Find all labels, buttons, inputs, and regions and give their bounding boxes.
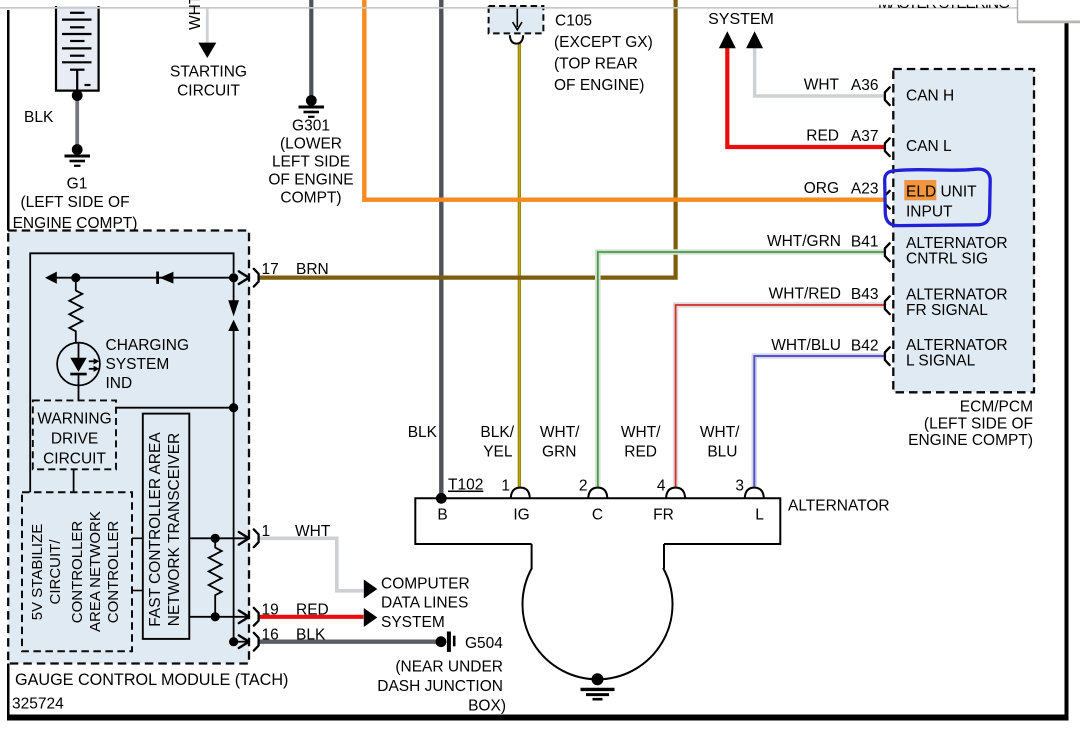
node dot pin1 row	[211, 534, 220, 543]
up arrow on right column	[228, 320, 239, 331]
svg-text:T102: T102	[448, 477, 483, 494]
svg-text:WARNING: WARNING	[37, 411, 111, 428]
svg-text:A37: A37	[851, 128, 879, 145]
svg-text:WHT/GRN: WHT/GRN	[767, 233, 841, 250]
LED charging system indicator circle	[57, 343, 100, 386]
wire BLK pin16 to G504	[260, 640, 438, 644]
wire BLK/YEL C105 to IG	[518, 44, 521, 489]
svg-text:GAUGE CONTROL MODULE (TACH): GAUGE CONTROL MODULE (TACH)	[15, 671, 288, 689]
svg-text:WHT/: WHT/	[540, 424, 580, 441]
ELD highlight	[904, 180, 936, 200]
T102 splice dot	[436, 493, 447, 504]
pin16 row line	[234, 641, 250, 643]
svg-text:YEL: YEL	[483, 444, 513, 461]
svg-text:CAN H: CAN H	[906, 88, 954, 105]
svg-text:1: 1	[262, 523, 271, 540]
svg-text:325724: 325724	[12, 696, 64, 713]
svg-text:CNTRL SIG: CNTRL SIG	[906, 251, 988, 268]
alternator connector body	[415, 498, 780, 544]
svg-text:L SIGNAL: L SIGNAL	[906, 352, 976, 369]
wire BLK T102 vertical	[439, 0, 443, 495]
svg-text:FR: FR	[653, 507, 674, 524]
svg-text:IND: IND	[106, 375, 133, 392]
svg-text:BOX): BOX)	[468, 698, 506, 715]
resistor R1	[69, 278, 82, 343]
svg-text:SYSTEM: SYSTEM	[106, 356, 170, 373]
warning drive circuit box	[33, 400, 116, 469]
svg-text:A23: A23	[851, 181, 879, 198]
svg-text:WHT: WHT	[804, 77, 840, 94]
ECM pin brackets A36 A37 A23 B41 B43 B42	[885, 87, 890, 365]
computer data lines arrow 1	[364, 580, 378, 599]
C105 arrow	[516, 8, 518, 27]
pin1 row line	[189, 537, 249, 539]
svg-text:(LOWER: (LOWER	[280, 136, 342, 153]
wire WHT CAN H	[755, 47, 885, 97]
svg-text:2: 2	[579, 478, 588, 495]
svg-text:CIRCUIT: CIRCUIT	[43, 451, 106, 468]
frame right border	[1065, 21, 1069, 717]
svg-text:G1: G1	[67, 176, 88, 193]
node dot left	[71, 273, 80, 282]
label FAST controller area network transceiver	[146, 417, 184, 642]
node dot pin16 row	[229, 637, 238, 646]
module inner circuit box	[30, 253, 233, 492]
terminal bumps IG C FR L	[511, 488, 764, 498]
svg-text:(LEFT SIDE OF: (LEFT SIDE OF	[20, 194, 129, 211]
svg-text:SYSTEM: SYSTEM	[381, 614, 445, 631]
battery terminal dot	[72, 90, 83, 101]
wire RED CAN L	[727, 47, 884, 148]
svg-text:INPUT: INPUT	[906, 204, 953, 221]
svg-text:WHT/BLU: WHT/BLU	[771, 337, 841, 354]
wire WHT/BLU halo	[754, 356, 884, 488]
stub warning box to 5V box	[73, 469, 75, 492]
module bus line with arrows	[51, 277, 230, 279]
node dot pin19 row	[211, 612, 220, 621]
svg-text:WHT/: WHT/	[621, 424, 661, 441]
pin16 arrowhead and bracket	[239, 635, 249, 648]
svg-text:WHT: WHT	[295, 523, 331, 540]
LED emission arrows	[89, 360, 95, 362]
stub 5V to FAST row2	[132, 590, 143, 592]
alternator ground	[592, 673, 604, 685]
FAST transceiver box	[143, 414, 190, 639]
svg-text:CAN L: CAN L	[906, 138, 952, 155]
svg-text:DRIVE: DRIVE	[51, 431, 98, 448]
svg-text:BLK: BLK	[24, 109, 54, 126]
SYSTEM arrow red	[719, 31, 736, 48]
svg-text:(NEAR UNDER: (NEAR UNDER	[395, 659, 503, 676]
battery cell plates	[62, 13, 92, 91]
svg-text:CIRCUIT: CIRCUIT	[177, 82, 240, 99]
label 5V stabilize controller area network	[29, 512, 65, 632]
svg-text:IG: IG	[513, 507, 529, 524]
svg-text:FR SIGNAL: FR SIGNAL	[906, 302, 988, 319]
svg-text:GRN: GRN	[542, 444, 576, 461]
svg-text:OF ENGINE: OF ENGINE	[268, 172, 353, 189]
pin19 row line	[189, 616, 249, 618]
svg-text:(LEFT SIDE OF: (LEFT SIDE OF	[924, 416, 1033, 433]
svg-text:(EXCEPT GX): (EXCEPT GX)	[554, 34, 653, 51]
svg-text:(TOP REAR: (TOP REAR	[554, 55, 638, 72]
svg-text:B42: B42	[851, 338, 879, 355]
svg-text:COMPUTER: COMPUTER	[381, 576, 470, 593]
C105 connector box	[489, 6, 544, 33]
computer data lines arrow 2	[364, 608, 378, 627]
wire WHT starting-circuit vertical	[206, 8, 209, 43]
alternator step stubs	[531, 544, 533, 569]
svg-text:BRN: BRN	[296, 261, 329, 278]
rotated label WHT starting wire	[187, 0, 205, 30]
popup corner box	[1017, 0, 1080, 21]
svg-text:LEFT SIDE: LEFT SIDE	[272, 154, 350, 171]
svg-text:L: L	[755, 507, 764, 524]
5V stabilize box	[22, 492, 132, 651]
blue annotation around ELD UNIT INPUT	[885, 169, 991, 226]
left arrow	[45, 272, 57, 284]
wire BRN vertical and horizontal	[260, 0, 676, 278]
alternator circle	[523, 568, 673, 679]
frame bottom border	[7, 715, 1069, 721]
svg-text:BLK: BLK	[408, 424, 438, 441]
ECM/PCM box	[893, 69, 1034, 392]
starting circuit arrow	[198, 43, 216, 58]
wire WHT/GRN core	[598, 252, 885, 488]
svg-text:B: B	[437, 507, 447, 524]
wire WHT pin1 to computer data lines	[260, 538, 364, 591]
svg-text:BLK/: BLK/	[480, 424, 514, 441]
svg-text:4: 4	[657, 478, 666, 495]
svg-text:17: 17	[262, 261, 279, 278]
svg-text:STARTING: STARTING	[170, 63, 247, 80]
resistor R2	[209, 538, 222, 617]
wire WHT/GRN halo	[598, 252, 885, 488]
svg-text:WHT/RED: WHT/RED	[769, 286, 841, 303]
svg-text:RED: RED	[624, 444, 657, 461]
stub 5V to FAST row1	[132, 537, 143, 539]
svg-text:COMPT): COMPT)	[280, 190, 341, 207]
wire WHT/RED halo	[676, 305, 885, 488]
svg-text:G504: G504	[465, 635, 503, 652]
pin17 arrowhead and bracket	[239, 271, 249, 284]
svg-text:DASH JUNCTION: DASH JUNCTION	[377, 678, 503, 695]
wire WHT/BLU core	[754, 356, 884, 488]
wire WHT/RED core	[676, 305, 885, 488]
svg-text:RED: RED	[296, 602, 329, 619]
svg-text:OF ENGINE): OF ENGINE)	[554, 77, 644, 94]
wire BLK G301 vertical	[309, 0, 313, 97]
battery box	[56, 6, 99, 91]
svg-text:B43: B43	[851, 286, 879, 303]
svg-text:CHARGING: CHARGING	[106, 337, 190, 354]
svg-text:DATA LINES: DATA LINES	[381, 595, 468, 612]
svg-text:C105: C105	[555, 13, 592, 30]
diode D1	[156, 272, 159, 284]
ground G504 symbol	[436, 636, 447, 647]
node dot right pin17	[229, 273, 238, 282]
ground G1	[72, 144, 83, 155]
svg-text:ENGINE COMPT): ENGINE COMPT)	[13, 215, 138, 232]
svg-text:1: 1	[501, 478, 510, 495]
svg-text:ORG: ORG	[804, 180, 839, 197]
svg-text:A36: A36	[851, 77, 879, 94]
svg-text:19: 19	[262, 602, 279, 619]
pin19 arrowhead and bracket	[239, 611, 249, 624]
svg-text:3: 3	[735, 478, 744, 495]
svg-text:BLU: BLU	[707, 444, 737, 461]
wire ORG	[364, 0, 884, 200]
wire RED pin19	[260, 615, 364, 619]
svg-text:SYSTEM: SYSTEM	[708, 11, 774, 28]
pin1 arrowhead and bracket	[239, 532, 249, 545]
svg-text:BLK: BLK	[296, 627, 326, 644]
page top gray line	[0, 7, 1017, 9]
SYSTEM arrow wht	[746, 31, 763, 48]
svg-text:RED: RED	[806, 128, 839, 145]
wire BLK battery to G1	[75, 96, 79, 148]
ground G301	[306, 95, 317, 106]
svg-text:G301: G301	[292, 118, 330, 135]
C105 female cup	[510, 35, 523, 43]
svg-text:C: C	[592, 507, 603, 524]
svg-text:ALTERNATOR: ALTERNATOR	[788, 498, 890, 515]
svg-text:B41: B41	[851, 234, 879, 251]
svg-text:ELD UNIT: ELD UNIT	[906, 184, 977, 201]
gauge control module box	[8, 231, 249, 664]
LED triangle	[70, 358, 86, 372]
svg-text:ECM/PCM: ECM/PCM	[960, 399, 1033, 416]
node dot mid right column	[229, 403, 238, 412]
down arrow on right column	[233, 278, 235, 301]
frame left border	[7, 10, 10, 231]
svg-text:WHT/: WHT/	[700, 424, 740, 441]
wire warning box to right column	[116, 407, 232, 409]
svg-text:16: 16	[262, 627, 279, 644]
svg-text:ENGINE COMPT): ENGINE COMPT)	[908, 432, 1033, 449]
